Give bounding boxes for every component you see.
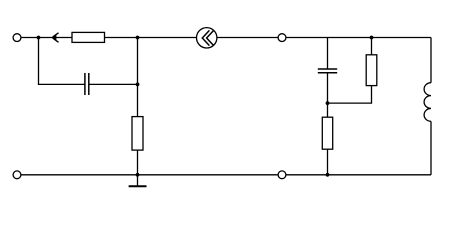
wire: C2 bottom plate down to node D [327,73,329,117]
wire: R2 bottom to bottom rail [137,150,139,175]
node D (junction dot at 327.5,103.1) [326,101,330,105]
wire: P2 to top-right corner [286,37,431,39]
resistor R1 (horizontal box) [72,32,105,42]
terminal P1 (top-left open circle) [13,34,21,42]
wire: inductor bottom down to bottom rail [430,121,432,175]
node C (junction dot at 137.5,84.4) [136,83,140,87]
wire: R4 bottom to bottom rail [327,149,329,175]
inductor L1 (three humps bulging left) [424,83,431,122]
terminal P2 (top-middle open circle on wire) [278,34,286,42]
capacitor C2 (vertical, plates horizontal) [318,69,337,73]
wire: bottom rail left segment [21,174,278,176]
resistor R4 (vertical box, lower branch A) [322,117,332,149]
wire: mid column from node B down to resistor R2 [137,38,139,117]
wire: R1 to current source [105,37,197,39]
node F (junction dot at 137.5,174.8) [136,173,140,177]
resistor R3 (vertical box, upper right) [366,55,377,86]
wire: branch A down from top rail to capacitor C2 [327,38,329,70]
wire: bottom rail right segment [286,174,431,176]
wire: C1 right plate to node C [89,83,138,85]
wire: current source to port P2 [217,37,278,39]
arrow (current direction arrow pointing left on top wire) [52,33,58,43]
wire: left column down from node A [39,38,85,85]
node B (junction dot at x=137.5 on top wire) [136,36,140,40]
node A (junction dot at x=38.5 on top wire) [37,36,41,40]
resistor R2 (vertical box, middle-left) [132,117,143,151]
wire: right edge top segment down to inductor [430,38,432,83]
wire top-left: terminal to resistor R1 [21,37,72,39]
terminal P3 (bottom-left open circle) [13,171,21,179]
capacitor C1 (horizontal, plates vertical) [85,73,89,95]
node E (junction dot at 371.5,37.5 on top rail) [370,36,374,40]
terminal P4 (bottom-middle open circle on wire) [278,171,286,179]
wire: R3 top to top rail [371,38,373,55]
current source B1 (circle with double chevron) [197,28,217,48]
node G (junction dot at 327.5,174.8) [326,173,330,177]
ground (stub and bar below node F) [129,175,147,187]
wire: connector from node D right and up to resistor R3 [328,86,372,104]
